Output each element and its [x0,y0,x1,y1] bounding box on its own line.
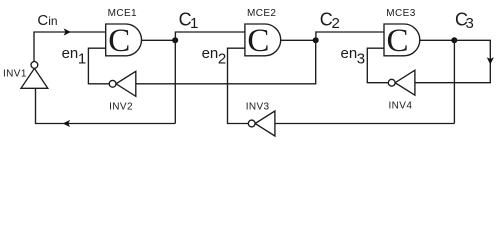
inverter INV4 (points left, bubble at output) [388,70,415,95]
wire node C3 right, down and left to INV4 input [415,40,490,82]
wire node C2 down and left to INV2 input [136,40,316,84]
wire node C3 down to bottom-right feedback rail [453,40,455,123]
C-element MCE2 (Muller C gate) [245,23,281,59]
svg-text:en1: en1 [62,45,87,67]
wire node C1 down to bottom-left feedback rail [174,40,176,123]
inverter INV3 (points left, bubble at output) [248,111,275,136]
svg-text:MCE1: MCE1 [108,8,137,19]
svg-text:INV2: INV2 [109,101,133,112]
wire node C1 up and right to MCE2 top input [175,32,245,40]
junction dot C3 [451,37,457,43]
junction dot C2 [313,37,319,43]
wire bottom-right rail to INV3 input [275,123,455,125]
wire MCE1 output to node C1 [142,39,176,41]
wire Cin: INV1 output up and right to MCE1 top input [34,32,106,62]
junction dot C1 [172,37,178,43]
svg-text:C: C [108,23,130,59]
wire INV2 output to MCE1 lower input (en1) [88,48,109,84]
svg-text:en3: en3 [341,45,366,67]
svg-text:en2: en2 [202,45,227,67]
wire INV4 output to MCE3 lower input (en3) [367,48,388,82]
svg-text:C: C [386,23,408,59]
C-element MCE1 (Muller C gate) [106,23,142,59]
arrowhead on bottom-left rail pointing left [63,120,70,127]
wire MCE2 output to node C2 [281,39,316,41]
svg-text:C2: C2 [320,9,340,32]
arrowhead on C3-INV4 wire pointing down [487,57,494,64]
inverter INV1 (points up, bubble on top) [21,62,48,89]
C-element MCE3 (Muller C gate) [384,23,420,59]
svg-text:INV4: INV4 [389,100,413,111]
svg-text:C3: C3 [455,10,474,33]
svg-text:Cin: Cin [37,12,57,29]
svg-text:MCE2: MCE2 [247,8,276,19]
svg-text:MCE3: MCE3 [386,8,415,19]
svg-text:INV3: INV3 [246,101,270,112]
wire bottom-left rail to INV1 input [36,88,176,123]
wire INV3 output to MCE2 lower input (en2) [228,48,249,123]
svg-text:C1: C1 [179,9,199,32]
svg-text:C: C [247,23,269,59]
svg-text:INV1: INV1 [3,68,27,79]
wire node C2 up and right to MCE3 top input [316,32,384,40]
inverter INV2 (points left, bubble at output) [109,71,136,96]
arrowhead on Cin wire pointing right [64,28,71,35]
wire MCE3 output to node C3 [420,39,454,41]
